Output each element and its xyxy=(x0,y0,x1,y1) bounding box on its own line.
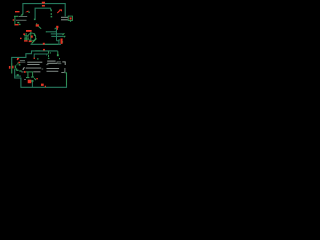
pin stub red below J1 xyxy=(42,5,45,7)
wire L2 xyxy=(51,33,63,35)
Q1 left green tick1 xyxy=(24,35,28,36)
Q1 center red dot xyxy=(31,36,33,38)
box U4 inner tick xyxy=(50,52,51,53)
pin red K1 mid xyxy=(13,19,14,20)
pad P1 pin tick below xyxy=(70,21,71,22)
crystal Y1 red plate2 xyxy=(12,66,13,69)
Q1 green tick left of pad xyxy=(36,23,37,24)
inductor L5 arc1 xyxy=(62,62,65,65)
Q1 left pin red dot A xyxy=(23,33,25,35)
junction red on W44 xyxy=(43,43,45,45)
label text Q3 row1 tail xyxy=(42,68,44,71)
box U4 left edge lower xyxy=(48,55,49,58)
label text block U4 row3 xyxy=(46,63,48,66)
label text block U4 row5 xyxy=(47,70,59,73)
box U4 right bright blob xyxy=(57,54,59,56)
label text D1 row2 xyxy=(27,63,39,66)
probe arrow X1 top right xyxy=(57,10,60,13)
Q3 green pin line xyxy=(26,71,33,72)
wire L4 stub xyxy=(57,41,59,45)
wire W44 xyxy=(31,43,62,45)
label text D1 row xyxy=(27,62,42,63)
Q3 red blob xyxy=(28,80,32,84)
red blob right end xyxy=(61,39,63,44)
wire L1 xyxy=(47,31,57,33)
V1 green segment xyxy=(56,28,58,30)
green tick near wireQ xyxy=(37,58,38,60)
L3 end green arrow xyxy=(64,36,65,37)
green tick beside arrow xyxy=(28,12,30,13)
pad P1 red dot xyxy=(70,17,72,19)
Q1 right green marks xyxy=(34,33,35,36)
crystal Y1 red plate1 xyxy=(9,66,11,69)
node dot J2 red xyxy=(56,26,58,28)
pin red bar K1 bottom xyxy=(15,24,19,25)
Q3 green tick a xyxy=(26,77,29,78)
C1 green plate xyxy=(24,39,28,40)
label dash right of Y1 xyxy=(21,71,23,74)
Q3 green mark right xyxy=(31,80,33,82)
Q1 diagonal dashes xyxy=(39,26,42,28)
Q3 emitter diagonal xyxy=(34,78,36,80)
wire top net xyxy=(23,4,65,17)
Y1 green tick xyxy=(16,68,18,70)
pin green tick K1 bottom xyxy=(19,24,20,25)
pin U2 dashes xyxy=(51,9,52,11)
Q2 green marks xyxy=(17,63,18,65)
label text block U4 row2 xyxy=(47,63,58,64)
wire parallel stub xyxy=(15,75,21,77)
label text block U4 row1 xyxy=(47,61,55,62)
box U4 left edge xyxy=(48,51,49,54)
label text block U4 row4 xyxy=(47,67,60,70)
V1 green segment xyxy=(56,30,57,32)
Y1 green dashes b xyxy=(19,70,21,71)
wireP bright segment xyxy=(35,50,40,51)
Q2 green tick right xyxy=(19,64,21,66)
dim tick left of box xyxy=(45,54,48,57)
pin arrow red small mid-top xyxy=(25,11,29,13)
wire staircase P xyxy=(12,51,58,63)
green tick right of red blob xyxy=(61,41,64,42)
Q2 red tick xyxy=(17,58,19,59)
pin tip vertical x35 xyxy=(34,19,36,21)
label small near wireP xyxy=(20,59,25,62)
label text U3 row2 xyxy=(61,19,68,20)
connector K1 pin 1 red dash xyxy=(15,11,20,12)
Q1 left pin red dot B xyxy=(20,38,22,39)
Q3 red tick right xyxy=(36,78,37,79)
label text Q3 row2 xyxy=(33,70,40,73)
symbol K1 left vertical xyxy=(14,17,15,26)
wire Q xyxy=(34,54,48,59)
green overlay right vertical xyxy=(66,72,67,85)
red tick above wire50.9 xyxy=(43,49,45,51)
W44 bright segment xyxy=(45,44,58,45)
label text block U4 row2b xyxy=(58,62,61,65)
pin tick below box xyxy=(59,58,60,59)
inductor L5 arc2 xyxy=(61,68,65,73)
pin line green K1 xyxy=(14,15,18,18)
label text U3 row1 xyxy=(61,17,69,18)
C1 red plate xyxy=(24,40,28,41)
Y1 green dashes a xyxy=(16,70,18,71)
Q1 left green tick2 xyxy=(24,36,27,39)
label small near wireP2 xyxy=(20,61,25,64)
green tick corner xyxy=(59,39,60,41)
Q1 left green vertical xyxy=(25,33,28,41)
L2 end green arrow xyxy=(63,33,65,35)
transistor Q2 red arrow xyxy=(17,58,19,60)
pin arrow green top-left xyxy=(20,13,22,15)
pin green vertical through C2 xyxy=(11,63,12,74)
junction J1 xyxy=(42,2,45,4)
red tick on bottom wire xyxy=(45,86,46,88)
Q3 wire down xyxy=(31,82,33,88)
box U4 right edge xyxy=(57,51,58,55)
Q3 green vertical b xyxy=(32,72,33,77)
crystal Y1 green plate xyxy=(15,65,16,68)
Q1 gate red bar xyxy=(26,30,32,32)
red bar right of C1 xyxy=(29,41,32,42)
label text K1 row2 xyxy=(16,19,27,22)
wire vertical V1 xyxy=(56,28,58,41)
pad P1 green box xyxy=(68,16,72,20)
label text K1 row1 xyxy=(19,15,28,18)
J2 green diag xyxy=(55,28,57,30)
box U4 left dash below xyxy=(48,58,50,59)
Q3 green tick b xyxy=(31,77,34,78)
wire L3 xyxy=(51,35,64,37)
switch S1 lever diagonal xyxy=(32,39,37,44)
Q3 green vertical a xyxy=(27,72,28,77)
red tick wireQ bottom xyxy=(34,58,35,59)
transistor Q1 top red pad xyxy=(36,24,39,26)
pin green tick K1 xyxy=(17,22,19,23)
hook glyph near cluster xyxy=(23,67,25,70)
inductor green tick xyxy=(65,72,66,74)
label rowA tail xyxy=(57,61,61,64)
label dash left xyxy=(24,78,26,81)
Q2 green tick left xyxy=(16,64,17,65)
Q3 red dot left xyxy=(24,71,26,73)
green marks right of vert xyxy=(17,74,19,76)
arrowhead X1 xyxy=(59,9,62,11)
wire bottom-left vertical xyxy=(15,69,67,88)
label text Q3 row1 xyxy=(26,67,42,70)
Q1 body circle xyxy=(28,33,36,41)
gnd red square xyxy=(41,84,44,86)
Q1 center vertical xyxy=(30,32,31,41)
Q2 red dot xyxy=(18,62,20,64)
wire second net xyxy=(35,8,51,20)
pin tick L1 start xyxy=(46,31,47,32)
